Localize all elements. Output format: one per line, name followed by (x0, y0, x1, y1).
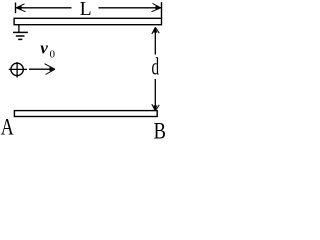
dimension L line right segment (99, 7, 161, 9)
velocity arrow v0 (29, 64, 55, 75)
dimension L line left segment (16, 7, 71, 9)
svg-text:A: A (1, 114, 14, 139)
ground stem wire (18, 25, 20, 32)
svg-text:0: 0 (50, 48, 56, 60)
dimension L right arrowhead (152, 3, 161, 11)
dimension L left tick (15, 3, 17, 14)
ground symbol (13, 32, 28, 39)
dimension L left arrowhead (16, 4, 25, 12)
svg-text:L: L (80, 0, 92, 20)
dimension d upper arrowhead (pointing up) (152, 27, 160, 34)
dimension d arrow upper segment (154, 28, 156, 55)
bottom plate (14, 111, 157, 117)
dimension L right tick (161, 2, 163, 18)
dimension d lower arrowhead (pointing down) (152, 104, 160, 111)
top plate (14, 18, 161, 24)
dimension d arrow lower segment (154, 79, 156, 111)
svg-text:v: v (40, 38, 48, 57)
positive particle (circle with plus) (9, 62, 27, 78)
svg-text:d: d (152, 55, 160, 81)
svg-text:B: B (154, 119, 166, 141)
